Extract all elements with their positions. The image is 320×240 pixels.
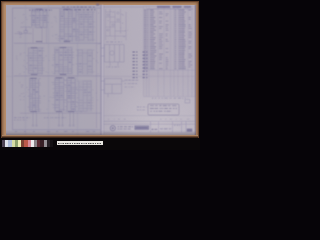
color bar patch 7	[21, 140, 24, 147]
margin marks upper-left	[14, 14, 27, 37]
small stamp upper	[185, 100, 190, 103]
paper shading bottom right lighter	[103, 76, 196, 136]
chain end caps	[36, 9, 42, 10]
wires to bottom terminals	[32, 112, 74, 126]
film label strip	[57, 141, 104, 145]
contact chain K8b (bot-mid-right)	[65, 77, 78, 111]
right page small labels	[106, 11, 128, 37]
color bar patch 11	[34, 140, 37, 147]
marks left of stamp	[137, 106, 139, 109]
schematic ink layer	[0, 0, 200, 150]
title block cells text	[152, 129, 154, 130]
contact chain K2 (top-mid)	[58, 9, 78, 42]
wires K1 to bus	[33, 29, 47, 44]
right page inner border	[103, 5, 105, 135]
tan band below paper	[2, 135, 197, 139]
contact chain K5 (mid-mid)	[53, 47, 74, 75]
contact chain K1 (top-left)	[30, 9, 49, 28]
vertical fold streaks left page	[26, 5, 78, 136]
margin marks mid-left	[16, 52, 27, 74]
color bar patch 15	[47, 140, 50, 147]
blueprint paper	[6, 5, 196, 135]
zone letters above title block	[108, 118, 109, 121]
approval stamp	[148, 104, 179, 115]
drawing frame right page	[104, 6, 196, 135]
text below table	[152, 97, 153, 100]
page fold seam	[100, 5, 102, 137]
contact chain K9 (bot-right)	[77, 81, 94, 112]
color bar patch 4	[12, 140, 15, 147]
company logo circle	[110, 126, 115, 131]
contact chain K7 (bot-left)	[28, 78, 41, 112]
contact chain K6 (mid-right)	[76, 49, 95, 74]
color bar patch 9	[28, 140, 31, 147]
right page schematic cluster	[106, 9, 127, 40]
contact chain K4 (mid-left)	[26, 47, 44, 75]
inter-column marks top	[51, 17, 57, 39]
parts list rows	[144, 9, 146, 12]
color bar patch 3	[8, 140, 11, 147]
right-column marks	[96, 13, 102, 101]
inter-column marks bot	[44, 82, 54, 109]
title text top center	[62, 7, 65, 8]
contact chain K3 (top-right)	[77, 11, 95, 42]
cardboard backing tan	[2, 2, 197, 138]
cardboard backing dark rim	[1, 1, 198, 139]
vertical feeder wire right of left page	[96, 9, 98, 128]
drawing number block	[135, 126, 150, 130]
note text bottom left	[14, 116, 16, 119]
label under K10	[106, 41, 109, 44]
color bar patch 1	[2, 140, 5, 147]
power supply box PS1	[101, 79, 125, 98]
parts list header	[157, 6, 170, 8]
paper grain overlay	[6, 5, 196, 138]
bottom scan strip black	[0, 138, 200, 150]
labels right of PS1	[125, 79, 128, 82]
right page lower rule	[104, 115, 196, 117]
title text top left page	[29, 10, 31, 11]
color bar patch 12	[37, 140, 40, 147]
bus wire B	[14, 75, 101, 77]
color bar patch 10	[31, 140, 34, 147]
paper edge shadow right	[194, 5, 196, 137]
margin marks bot-left	[19, 82, 28, 100]
transformer T1	[101, 45, 124, 67]
dark spot top of seam	[96, 3, 99, 5]
company name text	[118, 125, 120, 128]
bus wire C	[20, 112, 101, 114]
color bar patch 13	[40, 140, 43, 147]
horizontal fold crease	[6, 75, 196, 77]
color bar patch 5	[15, 140, 18, 147]
paper bottom edge shadow	[6, 130, 196, 135]
color bar patch 2	[5, 140, 8, 147]
table area tint	[144, 6, 196, 96]
zone ticks bottom left page	[15, 131, 95, 132]
bus wire A	[14, 42, 101, 44]
color bar patch 16	[50, 140, 53, 147]
note text bottom mid	[44, 116, 46, 119]
color bar patch 6	[18, 140, 21, 147]
drawing frame left page	[13, 8, 101, 130]
color bar patch 8	[24, 140, 27, 147]
component group left margin upper	[15, 27, 33, 35]
contact chain K8a (bot-mid-left)	[53, 77, 66, 111]
parts list table grid	[144, 6, 196, 96]
title block frame	[104, 121, 196, 133]
label under T1	[106, 66, 107, 69]
film label text	[58, 143, 101, 144]
color bar patch 14	[44, 140, 47, 147]
terminal strip list	[133, 52, 148, 79]
inter-column marks mid	[45, 56, 53, 73]
sheet number box	[187, 129, 192, 132]
